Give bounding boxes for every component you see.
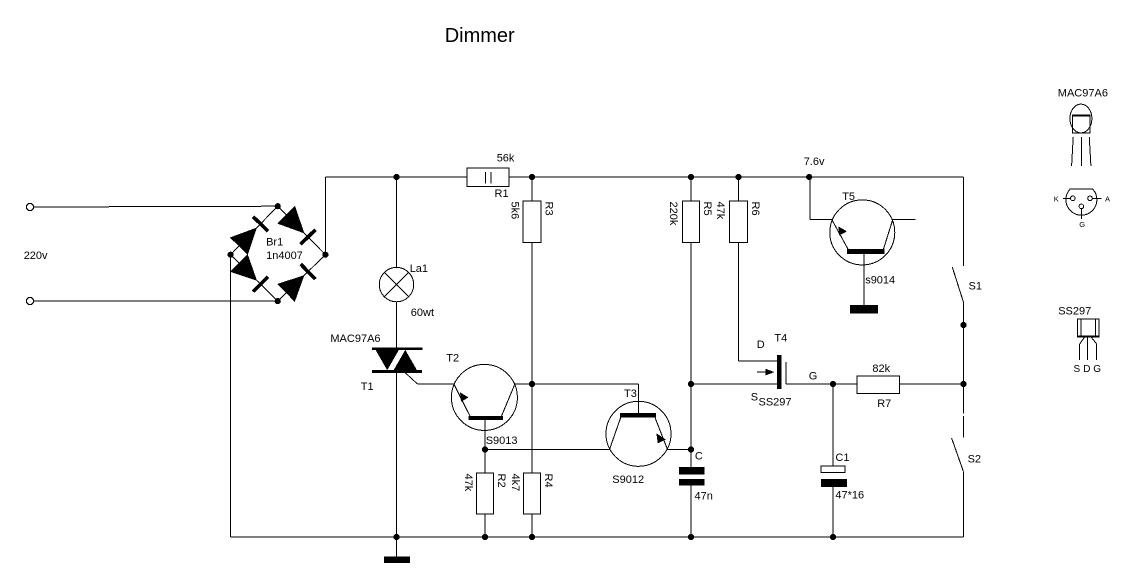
wire (786, 383, 857, 385)
bridge rectifier Br1 (230, 206, 326, 302)
wire (34, 300, 278, 302)
switch S1 (952, 267, 982, 302)
wire (963, 416, 965, 438)
wire (230, 255, 232, 537)
node S1 bottom (960, 322, 966, 328)
wire (325, 176, 467, 178)
node R5 T4 source (688, 381, 694, 387)
node 7.6v (806, 174, 812, 180)
capacitor C1 (821, 384, 864, 501)
wire (690, 243, 692, 468)
svg-text:T2: T2 (446, 353, 459, 365)
svg-text:7.6v: 7.6v (804, 156, 825, 168)
svg-text:R1: R1 (495, 188, 509, 200)
svg-text:T4: T4 (774, 332, 787, 344)
wire (396, 373, 398, 537)
wire (231, 536, 964, 538)
svg-text:S9012: S9012 (612, 474, 644, 486)
transistor T3 (606, 384, 671, 486)
resistor R5 (667, 177, 713, 243)
resistor R3 (509, 177, 555, 243)
wire (405, 373, 417, 384)
node top R5 (688, 174, 694, 180)
wire (809, 177, 811, 220)
svg-text:T1: T1 (361, 381, 374, 393)
svg-text:R4: R4 (542, 474, 554, 488)
ground (384, 537, 410, 563)
wire (509, 176, 964, 178)
wire (34, 205, 278, 208)
svg-text:S: S (1074, 364, 1081, 375)
svg-text:R5: R5 (701, 202, 713, 216)
svg-text:82k: 82k (872, 363, 890, 375)
svg-text:S2: S2 (968, 453, 981, 465)
wire (515, 383, 639, 385)
svg-text:47k: 47k (462, 474, 474, 492)
node bridge top (275, 203, 281, 209)
svg-text:220v: 220v (24, 250, 48, 262)
mosfet T4 (751, 332, 817, 408)
node bridge bottom (275, 298, 281, 304)
wire (863, 254, 865, 305)
node C top (688, 446, 694, 452)
wire (485, 449, 610, 451)
svg-text:T5: T5 (842, 191, 855, 203)
package SS297 (1074, 319, 1102, 375)
svg-text:MAC97A6: MAC97A6 (1058, 87, 1108, 99)
svg-text:47n: 47n (695, 491, 713, 503)
svg-text:60wt: 60wt (411, 307, 434, 319)
switch S2 (952, 438, 981, 472)
svg-text:Dimmer: Dimmer (445, 25, 515, 47)
resistor R6 (714, 177, 761, 243)
transistor T5 (830, 191, 895, 287)
svg-text:K: K (1054, 194, 1059, 203)
svg-text:5k6: 5k6 (509, 202, 521, 220)
node bridge right (322, 252, 328, 258)
svg-text:T3: T3 (624, 388, 637, 400)
resistor R7 (857, 363, 900, 410)
wire (531, 243, 533, 474)
wire (668, 449, 692, 451)
package TO-92 bottom (1054, 189, 1110, 229)
capacitor C (679, 467, 713, 502)
wire (810, 219, 832, 221)
svg-text:G: G (1079, 220, 1085, 229)
wire (963, 384, 965, 414)
triac T1 (330, 333, 422, 393)
wire (739, 360, 777, 362)
svg-text:4k7: 4k7 (509, 474, 521, 492)
wire (963, 301, 965, 384)
resistor R4 (509, 473, 554, 514)
terminal AC N (26, 297, 33, 304)
node top R3 (529, 174, 535, 180)
wire (417, 383, 454, 385)
node T2 base (482, 446, 488, 452)
svg-text:A: A (1105, 194, 1110, 203)
transistor T2 (446, 353, 517, 448)
wire (396, 302, 398, 348)
wire (691, 383, 777, 385)
svg-text:1n4007: 1n4007 (266, 250, 303, 262)
svg-text:G: G (809, 370, 818, 382)
node bottom C (688, 534, 694, 540)
svg-text:S1: S1 (969, 280, 982, 292)
svg-text:C1: C1 (835, 452, 849, 464)
svg-text:R3: R3 (543, 202, 555, 216)
svg-text:S9013: S9013 (486, 435, 518, 447)
wire (900, 383, 964, 385)
terminal AC L (26, 203, 33, 210)
wire (963, 472, 965, 537)
svg-text:G: G (1093, 364, 1101, 375)
svg-text:R2: R2 (495, 474, 507, 488)
svg-text:S: S (751, 391, 758, 403)
node top lamp (393, 174, 399, 180)
wire (690, 486, 692, 538)
svg-text:47k: 47k (714, 202, 726, 220)
node bottom T1 (393, 534, 399, 540)
resistor R1 (467, 153, 515, 201)
node T2 collector R3 (529, 381, 535, 387)
node bottom R4 (529, 534, 535, 540)
node S rail (960, 381, 966, 387)
svg-text:SS297: SS297 (759, 397, 792, 409)
wire (484, 420, 486, 450)
svg-text:SS297: SS297 (1058, 306, 1091, 318)
wire (963, 177, 965, 266)
node bottom C1 (830, 534, 836, 540)
svg-text:47*16: 47*16 (835, 489, 864, 501)
wire (531, 514, 533, 537)
wire (738, 243, 740, 362)
node C1 top (830, 381, 836, 387)
svg-text:C: C (695, 451, 703, 463)
svg-text:D: D (757, 339, 765, 351)
resistor R2 (462, 450, 507, 515)
svg-text:D: D (1083, 364, 1090, 375)
ground T5 (850, 305, 878, 313)
svg-text:La1: La1 (410, 263, 428, 275)
svg-text:MAC97A6: MAC97A6 (330, 333, 380, 345)
svg-text:R6: R6 (749, 202, 761, 216)
node top R6 (735, 174, 741, 180)
wire (832, 487, 834, 537)
svg-text:56k: 56k (497, 153, 515, 165)
svg-text:R7: R7 (877, 398, 891, 410)
package TO-92 front (1070, 104, 1092, 166)
wire (484, 514, 486, 537)
wire (324, 177, 326, 255)
lamp La1 (379, 177, 434, 319)
svg-text:s9014: s9014 (865, 275, 895, 287)
node bottom R2 (482, 534, 488, 540)
svg-text:Br1: Br1 (266, 237, 283, 249)
node bridge left (228, 252, 234, 258)
svg-text:220k: 220k (667, 202, 679, 226)
wire (893, 219, 916, 221)
